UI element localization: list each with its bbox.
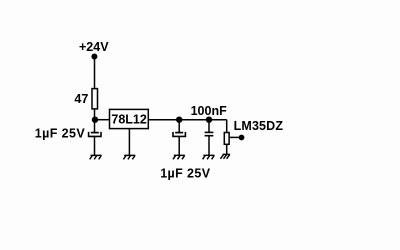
svg-text:1µF 25V: 1µF 25V (35, 126, 86, 140)
svg-text:LM35DZ: LM35DZ (234, 119, 284, 133)
svg-text:47: 47 (74, 92, 88, 106)
svg-text:100nF: 100nF (191, 104, 227, 118)
svg-text:+24V: +24V (79, 40, 109, 54)
svg-text:1µF 25V: 1µF 25V (160, 167, 211, 181)
svg-text:78L12: 78L12 (111, 112, 146, 126)
